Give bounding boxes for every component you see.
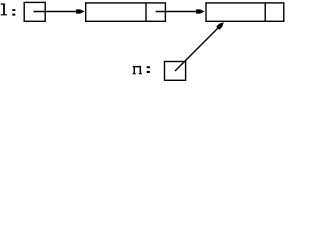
colon of l: lower dot <box>12 14 15 16</box>
wire from l box to node 1 <box>34 11 79 13</box>
colon of n: upper dot <box>147 66 150 68</box>
pointer box n <box>165 62 186 81</box>
colon of l: upper dot <box>12 9 15 11</box>
node 2 divider <box>264 3 266 21</box>
wire from node 1 cdr to node 2 <box>156 11 199 13</box>
diagonal wire from n box to node 2 <box>175 27 220 72</box>
node 1 box <box>86 3 166 21</box>
label l (glyph drawn as path, cmtt style) <box>1 3 7 15</box>
colon of n: lower dot <box>147 71 150 73</box>
pointer box l <box>24 2 45 21</box>
node 1 divider <box>145 3 147 21</box>
arrowhead into node 2 <box>196 9 205 13</box>
arrowhead into bottom of node 2 <box>216 21 225 30</box>
arrowhead into node 1 <box>76 9 85 13</box>
label n (glyph drawn as path, cmtt style) <box>133 66 142 74</box>
node 2 box <box>206 3 284 21</box>
